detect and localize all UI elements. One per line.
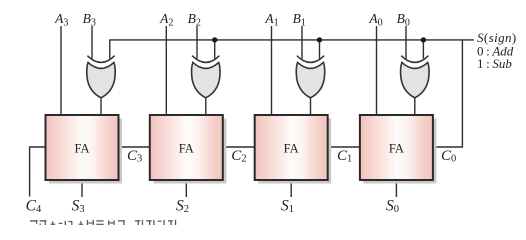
svg-text:S0: S0: [386, 198, 399, 216]
wire XOR1 right input: [319, 40, 321, 59]
svg-text:B0: B0: [397, 11, 410, 29]
svg-text:A2: A2: [159, 11, 173, 29]
junction dot XOR1: [317, 37, 322, 42]
wire S2 output: [185, 180, 187, 197]
full adder FA1: [255, 115, 332, 184]
svg-text:A0: A0: [368, 11, 382, 29]
svg-text:C0: C0: [441, 148, 456, 164]
svg-text:FA: FA: [74, 141, 89, 155]
wire carry C2: [223, 146, 255, 148]
wire XOR1 output: [310, 96, 312, 115]
svg-text:C1: C1: [337, 148, 352, 164]
wire S1 output: [290, 180, 292, 197]
svg-text:B2: B2: [188, 11, 201, 29]
wire sign line: [110, 40, 474, 59]
wire XOR3 output: [100, 96, 102, 115]
wire XOR0 output: [414, 96, 416, 115]
wire B0 input: [405, 26, 407, 59]
full adder FA2: [150, 115, 227, 184]
svg-text:S2: S2: [176, 198, 189, 216]
wire A1 input: [271, 26, 273, 115]
full adder FA3: [46, 115, 123, 184]
junction dot XOR2: [212, 37, 217, 42]
wire XOR2 right input: [214, 40, 216, 59]
xor gate X3: [87, 56, 115, 98]
wire B2 input: [196, 26, 198, 59]
svg-text:S3: S3: [72, 198, 85, 216]
svg-text:S1: S1: [281, 198, 294, 216]
wire A3 input: [60, 26, 62, 115]
svg-text:FA: FA: [389, 141, 404, 155]
xor gate X2: [192, 56, 220, 98]
wire B1 input: [301, 26, 303, 59]
wire C0 from sign line to FA0: [433, 40, 462, 147]
svg-text:C4: C4: [26, 198, 42, 216]
wire C4 output: [30, 147, 46, 197]
xor gate X1: [296, 56, 324, 98]
caption fragment (cropped figure caption): [30, 220, 176, 225]
wire carry C1: [328, 146, 360, 148]
svg-text:B1: B1: [293, 11, 306, 29]
wire A0 input: [376, 26, 378, 115]
svg-text:1 : Sub: 1 : Sub: [477, 56, 512, 71]
wire A2 input: [165, 26, 167, 115]
svg-text:C2: C2: [231, 148, 246, 164]
svg-text:C3: C3: [127, 148, 142, 164]
svg-text:FA: FA: [284, 141, 299, 155]
full adder FA0: [360, 115, 437, 184]
wire carry C3: [119, 146, 150, 148]
svg-text:A3: A3: [54, 11, 68, 29]
junction dot XOR0: [421, 37, 426, 42]
wire XOR2 output: [205, 96, 207, 115]
svg-text:B3: B3: [83, 11, 96, 29]
wire S0 output: [395, 180, 397, 197]
wire S3 output: [81, 180, 83, 197]
svg-text:FA: FA: [179, 141, 194, 155]
wire B3 input: [91, 26, 93, 59]
svg-text:A1: A1: [264, 11, 278, 29]
wire XOR0 right input: [422, 40, 424, 59]
xor gate X0: [401, 56, 429, 98]
